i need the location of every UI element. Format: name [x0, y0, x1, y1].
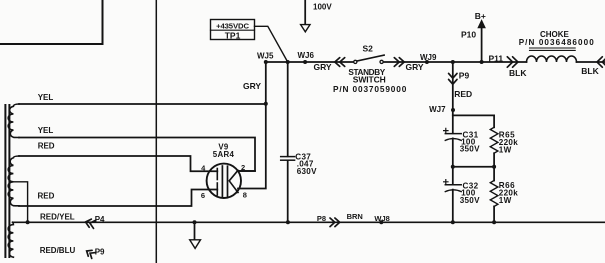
svg-text:100V: 100V — [313, 3, 332, 12]
svg-text:P9: P9 — [95, 248, 105, 257]
svg-text:WJ8: WJ8 — [374, 214, 389, 223]
svg-text:RED: RED — [38, 192, 55, 201]
svg-text:RED/YEL: RED/YEL — [40, 212, 75, 221]
svg-text:6: 6 — [201, 191, 205, 200]
svg-text:2: 2 — [241, 163, 245, 172]
svg-text:GRY: GRY — [243, 81, 261, 91]
svg-text:P11: P11 — [489, 54, 504, 64]
svg-text:RED/BLU: RED/BLU — [40, 246, 76, 255]
svg-text:350V: 350V — [460, 196, 480, 205]
svg-text:P4: P4 — [95, 215, 105, 224]
svg-text:1W: 1W — [499, 196, 512, 205]
svg-text:350V: 350V — [460, 145, 480, 154]
svg-text:WJ6: WJ6 — [298, 51, 315, 60]
svg-text:BLK: BLK — [581, 66, 599, 76]
svg-text:YEL: YEL — [38, 126, 54, 135]
svg-text:8: 8 — [243, 190, 247, 199]
svg-text:WJ9: WJ9 — [420, 53, 437, 62]
svg-text:BLK: BLK — [509, 68, 527, 78]
svg-text:RED: RED — [454, 89, 472, 99]
svg-text:WJ7: WJ7 — [429, 105, 446, 114]
svg-text:P9: P9 — [459, 71, 470, 81]
svg-text:YEL: YEL — [38, 93, 54, 102]
svg-text:630V: 630V — [297, 167, 317, 176]
svg-text:WJ5: WJ5 — [257, 51, 274, 60]
svg-text:B+: B+ — [475, 11, 486, 21]
svg-text:RED: RED — [38, 142, 55, 151]
svg-text:P8: P8 — [317, 214, 326, 223]
svg-text:S2: S2 — [363, 44, 374, 54]
svg-text:P/N 0036486000: P/N 0036486000 — [519, 38, 595, 47]
svg-text:TP1: TP1 — [225, 31, 241, 41]
svg-text:5AR4: 5AR4 — [213, 150, 235, 159]
svg-text:P/N 0037059000: P/N 0037059000 — [333, 84, 407, 94]
svg-text:GRY: GRY — [406, 62, 424, 72]
svg-text:1W: 1W — [499, 146, 512, 155]
svg-text:BRN: BRN — [347, 212, 363, 221]
svg-text:GRY: GRY — [314, 62, 332, 72]
svg-text:P10: P10 — [461, 29, 476, 39]
svg-text:+435VDC: +435VDC — [216, 21, 249, 30]
